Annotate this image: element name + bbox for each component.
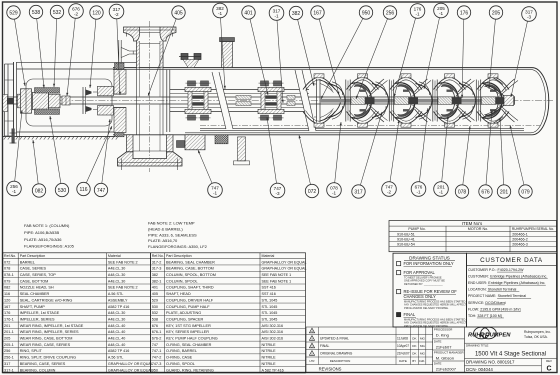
svg-text:LTR: LTR: [310, 359, 315, 363]
svg-text:529: 529: [9, 10, 18, 16]
svg-text:120: 120: [4, 298, 10, 302]
svg-text:MG: MG: [420, 352, 425, 356]
svg-text:ASSEMBLY: ASSEMBLY: [108, 298, 128, 302]
svg-text:FINAL: FINAL: [404, 312, 416, 317]
balloon 676: [479, 110, 493, 198]
column joint / coupling shaft third 401: [258, 81, 284, 120]
svg-text:PRODUCT MANAGER: PRODUCT MANAGER: [434, 351, 464, 355]
svg-text:AISI 302-316: AISI 302-316: [262, 324, 284, 328]
svg-text:Tulsa, OK USA.: Tulsa, OK USA.: [524, 335, 548, 339]
svg-text:538: 538: [152, 317, 158, 321]
svg-text:082: 082: [35, 188, 44, 194]
svg-text:FOR INFORMATION ONLY: FOR INFORMATION ONLY: [404, 261, 454, 266]
svg-text:401: 401: [152, 286, 158, 290]
balloon 205-1: [424, 3, 449, 89]
balloon 530: [49, 116, 68, 197]
svg-text:RETURNED BY: _____________: RETURNED BY: _____________: [404, 282, 443, 286]
svg-text:DRAWING NO. 8001917: DRAWING NO. 8001917: [466, 360, 515, 365]
coupling guard 950: [26, 79, 112, 126]
svg-text:21Feb07: 21Feb07: [397, 352, 410, 356]
svg-text:A.56 STL: A.56 STL: [108, 292, 123, 296]
svg-text:PLATE: A516,70/A36: PLATE: A516,70/A36: [24, 237, 62, 242]
svg-text:(HEAD & BARREL): (HEAD & BARREL): [148, 226, 183, 231]
svg-text:-1: -1: [218, 11, 223, 16]
parts table left: [3, 253, 153, 373]
revision triangles: [309, 328, 314, 333]
nozzle centerline vertical: [149, 21, 151, 172]
svg-text:DATE: DATE: [434, 362, 442, 366]
balloon 747-3: [266, 117, 284, 198]
svg-text:A48,CL.40: A48,CL.40: [108, 330, 125, 334]
svg-text:401: 401: [244, 10, 253, 16]
svg-text:200466-3: 200466-3: [512, 243, 528, 247]
svg-text:STL 1045: STL 1045: [262, 305, 278, 309]
balloon 167: [311, 6, 340, 95]
balloon 201: [497, 118, 510, 198]
balloon 072: [299, 135, 319, 198]
svg-text:205-1: 205-1: [4, 343, 14, 347]
balloon 116: [77, 126, 112, 196]
balloon 201-1: [434, 116, 449, 196]
svg-text:RUHRPUMPEN SERIAL No.: RUHRPUMPEN SERIAL No.: [512, 227, 554, 231]
svg-text:079: 079: [4, 279, 10, 283]
svg-text:D. King: D. King: [436, 332, 449, 337]
svg-text:910-BU-51: 910-BU-51: [397, 232, 415, 236]
svg-text:IMPELLER, SERIES: IMPELLER, SERIES: [20, 317, 55, 321]
svg-text:FLANGE/FORGINGS: A350, LF2: FLANGE/FORGINGS: A350, LF2: [148, 244, 208, 249]
svg-text:382: 382: [152, 273, 158, 277]
svg-text:PRICE AND/OR DELIVERY PROMI: PRICE AND/OR DELIVERY PROMISE.: [404, 306, 449, 310]
svg-text:072: 072: [308, 189, 317, 195]
svg-text:NOZZLE HEAD, SH: NOZZLE HEAD, SH: [20, 286, 54, 290]
balloon 532: [50, 5, 63, 87]
svg-text:A48,CL.30: A48,CL.30: [108, 273, 125, 277]
svg-text:201-1: 201-1: [4, 330, 14, 334]
column bearing 317-1: [236, 95, 251, 99]
bowl tail / case bottom 079: [494, 78, 504, 85]
balloon 317-3: [511, 7, 537, 97]
svg-text:317-3: 317-3: [152, 267, 162, 271]
svg-text:AISI 302-316: AISI 302-316: [262, 337, 284, 341]
svg-text:532: 532: [53, 10, 62, 16]
svg-text:530: 530: [152, 305, 158, 309]
svg-text:GRAPHALLOY OR EQUAL: GRAPHALLOY OR EQUAL: [108, 368, 153, 372]
svg-text:STL 1045: STL 1045: [262, 311, 278, 315]
svg-text:MG: MG: [420, 344, 425, 348]
svg-text:Stonefell Terminal: Stonefell Terminal: [498, 294, 527, 298]
drawing title block: [465, 342, 557, 344]
centerline main shaft: [4, 100, 553, 102]
svg-text:405: 405: [174, 10, 183, 16]
head studs: [115, 63, 125, 69]
balloon 747-2: [382, 120, 400, 196]
svg-text:078: 078: [458, 189, 467, 195]
svg-text:LOCATION:: LOCATION:: [468, 288, 487, 292]
svg-text:-1: -1: [439, 189, 444, 194]
svg-text:FLOW:: FLOW:: [468, 307, 479, 311]
svg-text:DK: DK: [412, 352, 416, 356]
svg-text:SERVICE:: SERVICE:: [468, 301, 484, 305]
drain pipe: [238, 137, 246, 161]
svg-text:747-3: 747-3: [152, 362, 162, 366]
balloon 079: [510, 125, 533, 198]
svg-text:Enbridge Pipelines (Athabasca): Enbridge Pipelines (Athabasca) Inc.: [488, 281, 545, 285]
nozzle head 082: [13, 62, 15, 137]
seal cartridge 120: [82, 87, 84, 114]
svg-text:DATE: DATE: [399, 359, 407, 363]
svg-text:676-2: 676-2: [152, 337, 162, 341]
svg-text:SEE FAB NOTE 2: SEE FAB NOTE 2: [108, 286, 138, 290]
svg-text:BEARING, SEAL CHAMBER: BEARING, SEAL CHAMBER: [166, 260, 215, 264]
svg-text:IMPELLER, 1st STAGE: IMPELLER, 1st STAGE: [20, 311, 60, 315]
svg-text:A48,CL.30: A48,CL.30: [108, 311, 125, 315]
svg-text:CUSTOMER P.O.:: CUSTOMER P.O.:: [468, 268, 496, 272]
svg-text:RING, SPLIT: RING, SPLIT: [20, 349, 43, 353]
balloon 747-1: [198, 150, 222, 197]
svg-text:120: 120: [92, 10, 101, 16]
svg-text:COLUMN, SPOOL, BOTTOM: COLUMN, SPOOL, BOTTOM: [166, 273, 216, 277]
balloon 317-1: [269, 6, 284, 103]
balloon 382-1: [213, 3, 228, 89]
svg-text:SEE FAB NOTE 1: SEE FAB NOTE 1: [262, 273, 292, 277]
suction flange: [118, 152, 183, 166]
svg-text:O-RING, BARREL: O-RING, BARREL: [166, 349, 197, 353]
svg-text:NITRILE: NITRILE: [262, 362, 277, 366]
svg-text:A582 TP 416: A582 TP 416: [108, 349, 129, 353]
svg-text:FLANGE/FORGINGS: A105: FLANGE/FORGINGS: A105: [24, 244, 75, 249]
svg-text:Ref.No.: Ref.No.: [152, 254, 164, 258]
svg-text:A582 TP 416: A582 TP 416: [108, 305, 129, 309]
svg-text:167: 167: [313, 10, 322, 16]
svg-text:DCN- 004044: DCN- 004044: [466, 367, 493, 372]
svg-text:205: 205: [492, 10, 501, 16]
svg-text:Part Description: Part Description: [20, 254, 46, 258]
break lines A: [212, 72, 233, 129]
svg-text:-3: -3: [275, 191, 280, 196]
svg-text:DK: DK: [412, 344, 416, 348]
svg-text:-2: -2: [74, 11, 79, 16]
svg-text:SST 416: SST 416: [262, 292, 276, 296]
svg-text:REVISIONS: REVISIONS: [319, 367, 342, 372]
coupling spacer 538: [33, 92, 49, 109]
customer data box: [467, 253, 557, 327]
svg-text:200466-1: 200466-1: [512, 232, 528, 236]
svg-text:KEY, 1ST STG IMPELLER: KEY, 1ST STG IMPELLER: [166, 324, 211, 328]
svg-text:WEAR RING, CASE, SERIES: WEAR RING, CASE, SERIES: [20, 343, 71, 347]
processor block: [432, 327, 434, 373]
column joint / shaft coupling 401 area 1: [185, 81, 211, 120]
balloon 256: [356, 6, 397, 99]
svg-text:FAB NOTE 2: LOW TEMP: FAB NOTE 2: LOW TEMP: [148, 221, 195, 226]
coupling bolt rows: [35, 88, 60, 93]
shaft 405/167: [7, 96, 506, 98]
svg-text:11Jul08: 11Jul08: [397, 337, 408, 341]
svg-text:PIPE: A106,B/A53B: PIPE: A106,B/A53B: [24, 230, 59, 235]
svg-text:A48,CL.40: A48,CL.40: [108, 343, 125, 347]
svg-text:PROCESSOR: PROCESSOR: [434, 328, 452, 332]
svg-text:Part Description: Part Description: [166, 254, 192, 258]
svg-text:10Apr07: 10Apr07: [397, 344, 409, 348]
svg-text:RING, SPLIT, DRIVE COUPLING: RING, SPLIT, DRIVE COUPLING: [20, 356, 76, 360]
svg-text:UMPEN: UMPEN: [490, 332, 512, 338]
svg-text:382-1: 382-1: [152, 279, 162, 283]
svg-text:A48,CL.30: A48,CL.30: [108, 267, 125, 271]
svg-text:COUPLING, SHAFT, THIRD: COUPLING, SHAFT, THIRD: [166, 286, 214, 290]
svg-text:Ruhrpumpen, Inc.: Ruhrpumpen, Inc.: [524, 330, 551, 334]
svg-text:317-2: 317-2: [152, 260, 162, 264]
revisions table: [305, 327, 307, 373]
svg-text:-1: -1: [439, 11, 444, 16]
svg-text:SEE FAB NOTE 1: SEE FAB NOTE 1: [262, 279, 292, 283]
balloon 317: [352, 112, 382, 198]
svg-text:A48,CL.30: A48,CL.30: [108, 279, 125, 283]
drawing status box: [393, 253, 467, 327]
svg-text:079: 079: [521, 189, 530, 195]
coupling pump half 530: [49, 94, 61, 108]
svg-text:BARREL: BARREL: [20, 260, 35, 264]
ruhrpumpen logo: [468, 327, 511, 339]
head clamp top: [179, 54, 201, 60]
svg-text:200466-2: 200466-2: [512, 238, 528, 242]
balloon 205: [488, 6, 502, 89]
svg-text:950: 950: [362, 10, 371, 16]
pipe through head: [136, 68, 138, 135]
parts table right: [151, 253, 307, 373]
svg-text:COLUMN, SPOOL: COLUMN, SPOOL: [166, 279, 198, 283]
svg-text:176: 176: [4, 311, 10, 315]
balloon 176: [457, 6, 470, 98]
svg-text:PROJECT NAME:: PROJECT NAME:: [468, 294, 496, 298]
head gauge fitting: [118, 40, 120, 63]
svg-text:NITRILE: NITRILE: [262, 343, 277, 347]
bowl shell cases 078: [303, 77, 335, 89]
svg-text:REV: REV: [546, 359, 552, 363]
svg-text:O-RING, CASE: O-RING, CASE: [166, 356, 193, 360]
svg-text:Material: Material: [262, 254, 275, 258]
svg-text:A48,CL.40: A48,CL.40: [108, 337, 125, 341]
svg-text:PIPE: A333, 6, SEAMLESS: PIPE: A333, 6, SEAMLESS: [148, 232, 197, 237]
svg-text:Enbridge Pipelines (Athabasca): Enbridge Pipelines (Athabasca) Inc.: [490, 275, 547, 279]
balloon 950: [321, 6, 373, 99]
barrel lower rail: [200, 128, 524, 130]
svg-text:DCO/Diluent: DCO/Diluent: [485, 301, 505, 305]
svg-text:COUPLING, PUMP HALF: COUPLING, PUMP HALF: [166, 305, 210, 309]
svg-text:A.56 STL: A.56 STL: [108, 356, 123, 360]
svg-text:530: 530: [58, 188, 67, 194]
svg-text:256: 256: [386, 10, 395, 16]
svg-text:1500 VIt 4 Stage Sectional: 1500 VIt 4 Stage Sectional: [475, 351, 546, 357]
svg-text:GRAPHALLOY OR EQUAL: GRAPHALLOY OR EQUAL: [262, 267, 307, 271]
svg-text:BEARING, CASE, SERIES: BEARING, CASE, SERIES: [20, 362, 66, 366]
svg-text:CUSTOMER DATA: CUSTOMER DATA: [480, 257, 543, 264]
svg-text:-1: -1: [213, 190, 218, 195]
balloon 078-1: [327, 122, 342, 197]
balloon 676-1: [411, 108, 429, 196]
svg-text:532: 532: [152, 311, 158, 315]
svg-text:-1: -1: [415, 11, 420, 16]
discharge flange: [124, 27, 140, 41]
motor flange left: [4, 64, 6, 136]
svg-text:176: 176: [460, 10, 469, 16]
anchor bolt: [12, 129, 15, 144]
svg-text:CHANGES ONLY: CHANGES ONLY: [404, 294, 436, 299]
svg-text:END USER:: END USER:: [468, 281, 487, 285]
svg-text:CASE, SERIES: CASE, SERIES: [20, 267, 47, 271]
balloon 382: [289, 6, 314, 86]
svg-text:910-BU-41: 910-BU-41: [397, 238, 415, 242]
svg-text:PUMP No.: PUMP No.: [408, 227, 425, 231]
svg-text:A48,CL.40: A48,CL.40: [108, 324, 125, 328]
svg-text:GRAPHALLOY OR EQUAL: GRAPHALLOY OR EQUAL: [108, 362, 153, 366]
balloon 529: [7, 6, 26, 86]
svg-text:BEARING, CASE, BOTTOM: BEARING, CASE, BOTTOM: [166, 267, 214, 271]
svg-text:AISI 302-316: AISI 302-316: [262, 330, 284, 334]
svg-text:256-1: 256-1: [4, 356, 14, 360]
svg-text:2195.6 GPM [499 m 3/hr]: 2195.6 GPM [499 m 3/hr]: [480, 307, 520, 311]
svg-text:M. Gibson: M. Gibson: [436, 355, 454, 360]
svg-text:COUPLING, DRIVER HALF: COUPLING, DRIVER HALF: [166, 298, 214, 302]
balloon 747: [94, 119, 110, 197]
svg-text:GRAPHALLOY OR EQUAL: GRAPHALLOY OR EQUAL: [262, 260, 307, 264]
svg-text:FOR APPROVAL: FOR APPROVAL: [404, 270, 436, 275]
svg-text:CHK.: CHK.: [419, 359, 425, 363]
svg-text:167: 167: [4, 305, 10, 309]
svg-text:A48,CL.30: A48,CL.30: [108, 317, 125, 321]
svg-text:KEY, SERIES IMPELLER: KEY, SERIES IMPELLER: [166, 330, 209, 334]
svg-text:FINAL: FINAL: [320, 344, 330, 348]
vent stub top: [222, 42, 233, 68]
svg-text:PLATE: A516,70: PLATE: A516,70: [148, 238, 178, 243]
svg-text:-1: -1: [274, 13, 279, 18]
svg-text:950: 950: [152, 368, 158, 372]
balloon 538: [29, 5, 45, 88]
svg-text:FAB NOTE 1: (COLUMN): FAB NOTE 1: (COLUMN): [24, 223, 70, 228]
svg-text:328 FT [100 M]: 328 FT [100 M]: [477, 314, 501, 318]
svg-text:201: 201: [500, 189, 509, 195]
svg-text:676: 676: [481, 189, 490, 195]
svg-text:WEAR RING, CASE, BOTTOM: WEAR RING, CASE, BOTTOM: [20, 337, 73, 341]
svg-text:SEAL CHAMBER: SEAL CHAMBER: [20, 292, 50, 296]
svg-text:21Feb07: 21Feb07: [436, 344, 453, 349]
svg-text:STL 1045: STL 1045: [262, 298, 278, 302]
column spool 382-1: [170, 89, 309, 91]
balloon 176-1: [394, 4, 425, 97]
svg-text:O-RING, SPOOL: O-RING, SPOOL: [166, 362, 195, 366]
balloon 401: [242, 6, 268, 95]
svg-text:082: 082: [4, 286, 10, 290]
head column flange: [166, 70, 168, 133]
bowl inlet bell: [316, 79, 318, 123]
svg-text:SEE FAB NOTE 2: SEE FAB NOTE 2: [108, 260, 138, 264]
discharge nozzle pipe: [136, 33, 138, 68]
svg-text:405: 405: [152, 292, 158, 296]
balloon 317-2: [109, 4, 124, 95]
svg-text:GUARD, RING, RETAINING: GUARD, RING, RETAINING: [166, 368, 214, 372]
svg-text:STL 1045: STL 1045: [262, 317, 278, 321]
svg-text:-1: -1: [416, 189, 421, 194]
svg-text:KEY, PUMP HALF COUPLING: KEY, PUMP HALF COUPLING: [166, 337, 218, 341]
svg-text:BY: BY: [412, 359, 416, 363]
svg-text:256: 256: [4, 349, 10, 353]
bowl stage 1 impeller 176: [329, 79, 388, 122]
svg-text:NITRILE: NITRILE: [262, 349, 277, 353]
svg-text:Stonefell Terminal: Stonefell Terminal: [488, 288, 517, 292]
svg-text:C: C: [546, 366, 551, 373]
svg-text:WEAR RING, IMPELLER, 1st STAGE: WEAR RING, IMPELLER, 1st STAGE: [20, 324, 84, 328]
svg-text:DESCRIPTION: DESCRIPTION: [330, 359, 351, 363]
svg-text:382: 382: [292, 11, 301, 17]
svg-text:676: 676: [152, 324, 158, 328]
svg-text:SHAFT, HEAD: SHAFT, HEAD: [166, 292, 191, 296]
svg-text:529: 529: [152, 298, 158, 302]
svg-text:Ref.No.: Ref.No.: [4, 254, 16, 258]
foundation line: [3, 135, 122, 137]
svg-text:DATE: DATE: [434, 339, 442, 343]
svg-text:MG: MG: [420, 337, 425, 341]
svg-text:-2: -2: [387, 189, 392, 194]
bowl stage 3 impeller 176: [416, 79, 475, 122]
svg-text:SST 416: SST 416: [262, 286, 276, 290]
seal chamber 116: [114, 70, 126, 95]
svg-text:747: 747: [152, 343, 158, 347]
barrel 072 outline: [113, 68, 549, 135]
svg-text:NITRILE: NITRILE: [262, 356, 277, 360]
balloon 256-1: [7, 110, 23, 196]
svg-text:CASE, SERIES, TOP: CASE, SERIES, TOP: [20, 273, 57, 277]
svg-text:CUSTOMER:: CUSTOMER:: [468, 275, 489, 279]
svg-text:747-2: 747-2: [152, 356, 162, 360]
svg-text:WEAR RING, IMPELLER, SERIES: WEAR RING, IMPELLER, SERIES: [20, 330, 79, 334]
svg-text:747-1: 747-1: [152, 349, 162, 353]
svg-text:TDH:: TDH:: [468, 314, 476, 318]
svg-text:DRAWING STATUS: DRAWING STATUS: [409, 255, 450, 260]
svg-text:PLATE, ADJUSTING: PLATE, ADJUSTING: [166, 311, 201, 315]
svg-text:116: 116: [4, 292, 10, 296]
svg-text:317-1: 317-1: [4, 368, 14, 372]
svg-text:747: 747: [97, 188, 106, 194]
svg-text:201: 201: [4, 324, 10, 328]
svg-text:A 582 TP 416: A 582 TP 416: [262, 368, 284, 372]
svg-text:BEARING, COLUMN: BEARING, COLUMN: [20, 368, 56, 372]
svg-text:-1: -1: [332, 190, 337, 195]
svg-text:317: 317: [4, 362, 10, 366]
suction nozzle pipe: [127, 135, 134, 152]
svg-text:078-1: 078-1: [4, 273, 14, 277]
balloon 120: [89, 6, 103, 88]
svg-text:DK: DK: [412, 337, 416, 341]
svg-text:O-RING, SEAL CHAMBER: O-RING, SEAL CHAMBER: [166, 343, 212, 347]
svg-text:DRAWING TITLE: DRAWING TITLE: [466, 344, 489, 348]
svg-text:COUPLING, SPACER: COUPLING, SPACER: [166, 317, 204, 321]
svg-text:205: 205: [4, 337, 10, 341]
motor bearing block left edge: [3, 95, 8, 112]
svg-text:RP: RP: [480, 330, 490, 339]
svg-text:538: 538: [32, 10, 41, 16]
svg-text:UPDATED & FINAL: UPDATED & FINAL: [320, 337, 349, 341]
balloon 676-2: [66, 4, 83, 96]
svg-text:Material: Material: [108, 254, 121, 258]
balloon 082: [32, 140, 45, 197]
svg-text:CASE, BOTTOM: CASE, BOTTOM: [20, 279, 49, 283]
item numbers table: [389, 221, 557, 252]
svg-text:21Feb2007: 21Feb2007: [436, 366, 457, 371]
svg-text:078: 078: [4, 267, 10, 271]
svg-text:F4020-1794-2W: F4020-1794-2W: [498, 268, 525, 272]
balloon 405: [148, 6, 185, 96]
split ring 256-1 / key 676-2: [62, 96, 70, 105]
break lines B: [295, 70, 316, 131]
svg-text:SHAFT, PUMP: SHAFT, PUMP: [20, 305, 46, 309]
